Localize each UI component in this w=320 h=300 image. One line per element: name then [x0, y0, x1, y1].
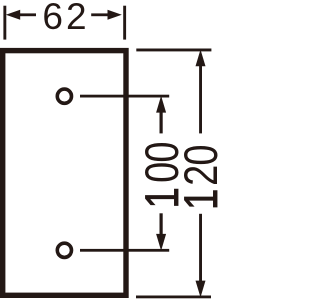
- dimension 62: left extension tick: [3, 6, 6, 40]
- mounting hole (top): [57, 89, 71, 103]
- dimension 62: right extension tick: [123, 6, 126, 40]
- dimension 62: right arrow shaft: [91, 13, 108, 16]
- dimension 120: lower arrow shaft: [199, 214, 202, 282]
- svg-text:62: 62: [42, 0, 89, 37]
- dimension 100: upper arrowhead: [156, 96, 166, 113]
- dimension 62: right arrowhead: [108, 10, 122, 20]
- dimension 62: left arrow shaft: [19, 13, 36, 16]
- dimension 120: upper arrowhead: [196, 50, 206, 67]
- mounting hole (bottom): [57, 243, 71, 257]
- dimension 120: lower arrowhead: [196, 281, 206, 298]
- extension line from top hole: [80, 95, 169, 98]
- dimension 100: lower arrowhead: [156, 234, 166, 251]
- fixture body outline: [3, 51, 126, 296]
- svg-text:20: 20: [175, 145, 219, 186]
- extension line from bottom hole: [80, 249, 169, 252]
- dimension 120: upper arrow shaft: [199, 65, 202, 134]
- svg-text:1: 1: [175, 189, 219, 210]
- dimension 100: lower arrow shaft: [160, 213, 163, 236]
- extension line at body top (for 120): [136, 49, 211, 52]
- dimension 100: upper arrow shaft: [160, 111, 163, 133]
- dimension 62: left arrowhead: [6, 10, 20, 20]
- extension line at body bottom (for 120): [136, 296, 211, 299]
